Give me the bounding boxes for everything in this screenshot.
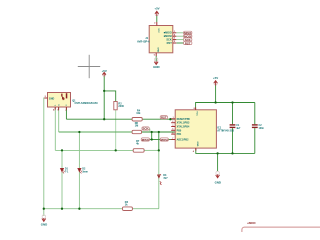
svg-text:PB1: PB1	[177, 133, 182, 136]
wire: R2 top branch	[104, 91, 116, 102]
wire: LED2 vertical	[78, 132, 80, 209]
resonator crystal symbol	[61, 94, 62, 97]
net label MISO (row3)	[141, 138, 149, 142]
wire: row3 MISO-MOSI net	[150, 139, 161, 141]
svg-text:GND: GND	[156, 47, 158, 52]
svg-text:MISO: MISO	[142, 138, 150, 142]
svg-text:GND: GND	[49, 98, 55, 101]
svg-text:VCC: VCC	[196, 111, 198, 116]
pin RST	[173, 42, 177, 44]
wire: ISP header GND drop	[155, 56, 157, 61]
svg-text:4u7: 4u7	[236, 127, 241, 130]
svg-text:1: 1	[173, 117, 174, 119]
resistor R2	[114, 102, 125, 110]
wire: resonator pin1 down to LED row	[54, 107, 56, 150]
wire: LED1 vertical	[61, 150, 63, 208]
net label MOSI (row3)	[160, 138, 168, 142]
wire: row4 right of R7	[144, 149, 159, 151]
svg-text:ATTINY45-20S: ATTINY45-20S	[217, 130, 234, 133]
svg-text:4V7: 4V7	[163, 177, 168, 180]
wire: ground bus	[44, 208, 123, 210]
wire: row1 RST to IC	[142, 118, 175, 120]
wire: +5V drop middle	[103, 76, 105, 119]
svg-text:VCC: VCC	[157, 28, 159, 33]
svg-text:RST: RST	[185, 41, 191, 45]
wire: ISP MISO	[176, 32, 183, 34]
net label RST (ISP)	[184, 41, 192, 45]
wire: ISP RST	[176, 42, 183, 44]
wire: C1 vertical	[232, 103, 234, 125]
net label MISO (ISP)	[184, 31, 193, 35]
wire: resonator pin2 down to SCK row	[58, 107, 60, 132]
net label SCK (ISP)	[184, 38, 192, 42]
svg-text:eMOD: eMOD	[247, 221, 255, 225]
resistor R8 (row2)	[132, 122, 141, 134]
power +5V symbol middle	[102, 69, 107, 76]
capacitor C2	[252, 124, 265, 130]
power +5V symbol top (ISP)	[154, 7, 159, 16]
wire: row4 net	[55, 149, 133, 151]
wire: SCK-MISO tie vertical	[151, 132, 153, 140]
wire: row3 MOSI to IC	[168, 139, 175, 141]
wire: R2 bottom lead down	[115, 110, 117, 151]
svg-text:MOSI: MOSI	[161, 138, 168, 142]
wire: resonator pin3 down to RST row	[65, 107, 67, 119]
svg-text:■MOSI: ■MOSI	[164, 34, 172, 38]
svg-text:GND: GND	[41, 223, 47, 227]
wire: GND left rail from resonator	[43, 98, 46, 216]
svg-text:2: 2	[172, 121, 173, 123]
wire: IC GND bottom link	[196, 148, 255, 153]
connector J1 AVR-ISP-6	[137, 22, 176, 56]
svg-text:RESET/PB5: RESET/PB5	[177, 118, 191, 121]
power +5V symbol right	[213, 76, 218, 86]
svg-text:1M: 1M	[135, 124, 138, 127]
wire: +5V drop right	[215, 86, 217, 103]
wire: IC VCC top link	[196, 103, 255, 110]
resistor R4 (row1)	[132, 110, 142, 121]
pin MOSI	[173, 35, 177, 37]
svg-text:PB0: PB0	[177, 129, 182, 132]
LED D2	[78, 168, 88, 174]
pin GND stub left	[44, 97, 47, 99]
net label RST (row1)	[160, 116, 167, 120]
svg-text:7: 7	[172, 138, 173, 140]
resistor R7 (row4)	[133, 140, 144, 152]
pin GND stub bottom	[155, 53, 157, 56]
gnd symbol below ISP	[153, 58, 159, 69]
resistor R3 (bus)	[123, 201, 133, 210]
svg-text:GND: GND	[196, 142, 198, 147]
wire: ground bus right of R3	[132, 208, 158, 210]
LED D1	[60, 168, 69, 174]
net label SCK (row2)	[142, 127, 150, 132]
svg-text:6: 6	[172, 133, 173, 135]
pin MISO	[173, 32, 177, 34]
pin VCC stub top	[156, 22, 158, 26]
svg-text:+5V: +5V	[154, 7, 159, 11]
gnd symbol bottom left	[41, 215, 47, 227]
svg-text:AVR-ISP-6: AVR-ISP-6	[137, 40, 150, 44]
origin crosshair	[78, 55, 100, 78]
wire: row2 SCK net	[59, 131, 132, 133]
pin GND bottom stub	[195, 148, 197, 151]
net label MOSI (ISP)	[184, 35, 192, 39]
wire: C2 vertical	[254, 103, 256, 125]
zener D3	[157, 174, 168, 185]
svg-text:RST: RST	[161, 116, 167, 120]
svg-text:SCK: SCK	[143, 127, 149, 131]
bottom pin stubs	[54, 107, 56, 110]
svg-text:3: 3	[172, 125, 173, 127]
wire: ISP SCK	[176, 39, 183, 41]
svg-text:100n: 100n	[259, 127, 265, 130]
gnd symbol right	[215, 171, 221, 184]
frame corner box	[242, 227, 320, 240]
svg-text:ADC1/PB2: ADC1/PB2	[177, 139, 189, 142]
IC1 ATTINY45	[171, 107, 234, 152]
svg-text:■MISO: ■MISO	[164, 31, 172, 35]
wire: +5V rail to ISP header	[156, 16, 158, 22]
svg-text:2200: 2200	[118, 105, 124, 108]
resonator Q1	[44, 93, 98, 113]
pin SCK	[173, 39, 177, 41]
svg-text:XTAL1/PB3: XTAL1/PB3	[177, 122, 190, 125]
wire: ISP MOSI	[176, 35, 183, 37]
svg-text:10k: 10k	[136, 112, 141, 115]
pin names	[177, 118, 191, 142]
capacitor C1	[230, 124, 241, 130]
svg-text:+5V: +5V	[213, 76, 218, 80]
wire: zener vertical	[158, 132, 160, 150]
svg-text:SCK: SCK	[166, 38, 172, 42]
wire: row1 RST net	[66, 118, 132, 120]
left pin stubs	[171, 119, 175, 140]
pin VCC top stub	[195, 107, 197, 109]
svg-text:GND: GND	[153, 65, 159, 69]
svg-text:5: 5	[172, 129, 173, 131]
svg-text:3mm: 3mm	[82, 170, 88, 173]
wire: row2 SCK to IC	[142, 131, 176, 133]
wire: GND drop right	[217, 153, 219, 171]
svg-text:CSTLS4M00G53-B0: CSTLS4M00G53-B0	[75, 102, 99, 105]
left pin numbers	[172, 117, 173, 140]
svg-text:XTAL2/PB4: XTAL2/PB4	[177, 126, 190, 129]
svg-text:RST: RST	[167, 41, 173, 45]
svg-text:GND: GND	[215, 181, 221, 185]
